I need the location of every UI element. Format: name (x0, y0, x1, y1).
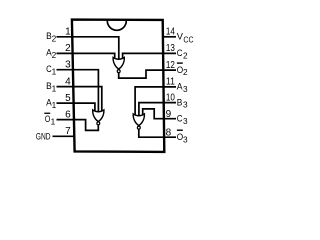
svg-text:2: 2 (183, 51, 188, 61)
svg-text:11: 11 (166, 77, 175, 88)
svg-text:1: 1 (52, 83, 57, 93)
svg-text:12: 12 (166, 60, 175, 71)
svg-text:2: 2 (52, 50, 57, 60)
svg-text:O: O (45, 114, 51, 124)
svg-text:2: 2 (65, 43, 71, 54)
svg-text:3: 3 (183, 100, 188, 110)
svg-text:C: C (177, 48, 183, 58)
svg-text:C: C (177, 113, 183, 123)
svg-text:3: 3 (183, 134, 188, 144)
svg-text:10: 10 (166, 92, 175, 103)
svg-text:1: 1 (65, 27, 71, 38)
svg-text:7: 7 (65, 126, 71, 137)
svg-text:13: 13 (166, 43, 175, 54)
svg-text:2: 2 (183, 67, 188, 77)
svg-text:B: B (177, 97, 183, 107)
svg-text:CC: CC (183, 34, 193, 44)
svg-text:6: 6 (65, 109, 71, 120)
svg-text:GND: GND (36, 132, 51, 142)
svg-text:1: 1 (52, 100, 57, 110)
svg-text:1: 1 (51, 116, 56, 126)
svg-text:3: 3 (183, 84, 188, 94)
svg-text:2: 2 (52, 34, 57, 44)
svg-text:3: 3 (183, 116, 188, 126)
svg-text:14: 14 (166, 26, 175, 37)
svg-text:9: 9 (166, 109, 172, 120)
svg-text:4: 4 (65, 76, 71, 87)
svg-text:3: 3 (65, 59, 71, 70)
svg-text:5: 5 (65, 93, 71, 104)
svg-text:8: 8 (166, 128, 172, 139)
svg-text:1: 1 (52, 66, 57, 76)
